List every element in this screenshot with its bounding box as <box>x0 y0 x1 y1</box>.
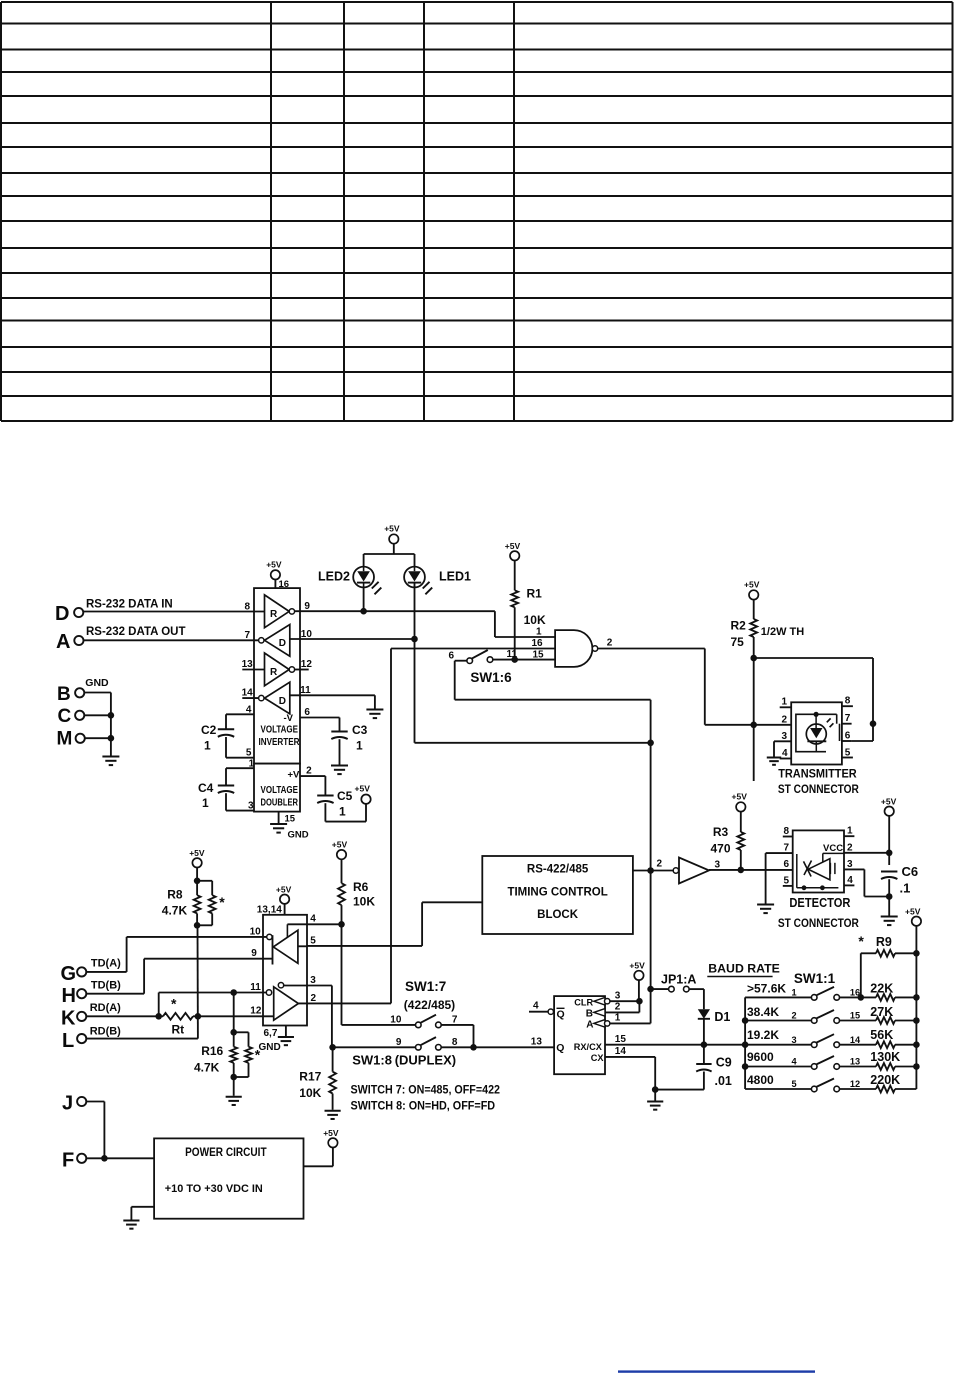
svg-text:Q: Q <box>556 1042 564 1054</box>
svg-text:R: R <box>270 609 278 620</box>
resistor R16 4.7K (parallel pair) <box>194 1032 261 1096</box>
svg-text:R17: R17 <box>299 1070 321 1084</box>
node J <box>62 1093 86 1115</box>
resistor R1 10K <box>511 587 546 628</box>
+V label and VOLTAGE DOUBLER text <box>261 770 301 809</box>
wire R6 to SW1:7 left terminal <box>342 1024 416 1026</box>
wire D to U1 pin 8 <box>83 611 264 613</box>
resistor R8 4.7K (parallel pair) <box>162 881 225 929</box>
capacitor C6 .1 <box>881 864 918 897</box>
ground (U1 pin 15) <box>270 824 309 841</box>
detector pin stubs and numbers <box>766 826 855 887</box>
svg-text:12: 12 <box>850 1079 860 1089</box>
svg-text:3: 3 <box>847 859 853 870</box>
ground (C6) <box>881 916 898 918</box>
wire LED2 cathode to DATA IN line <box>363 587 365 611</box>
svg-text:LED1: LED1 <box>439 570 471 584</box>
U1 pin 3 wire <box>226 801 254 812</box>
svg-text:RS-422/485: RS-422/485 <box>527 864 589 876</box>
node F <box>62 1150 86 1172</box>
svg-text:*: * <box>858 933 864 949</box>
svg-text:+V: +V <box>288 770 301 781</box>
svg-text:470: 470 <box>711 842 731 856</box>
U1 pin 1 wire <box>226 759 255 770</box>
U4 Qbar pin 4 <box>529 1001 565 1021</box>
U1 pin 6 wire (-V) <box>300 707 340 718</box>
svg-text:R3: R3 <box>713 825 729 839</box>
svg-text:C3: C3 <box>352 723 368 737</box>
node B <box>57 684 84 705</box>
svg-text:R9: R9 <box>876 935 892 949</box>
IC U1 voltage doubler section box <box>254 764 300 812</box>
svg-text:2: 2 <box>311 993 317 1004</box>
svg-text:6: 6 <box>784 859 790 870</box>
node H (TD(B) terminal) <box>62 980 122 1008</box>
resistor R6 10K <box>338 880 375 909</box>
svg-text:3: 3 <box>792 1035 797 1045</box>
svg-text:27K: 27K <box>870 1005 893 1019</box>
svg-text:CX: CX <box>591 1053 605 1063</box>
svg-text:11: 11 <box>507 649 518 660</box>
svg-text:RD(B): RD(B) <box>90 1026 121 1038</box>
svg-text:TD(B): TD(B) <box>91 980 121 992</box>
IC U1 box (RS-232 drivers/receivers + voltage inverter) <box>254 588 300 764</box>
TRANSMITTER ST CONNECTOR label <box>778 767 859 797</box>
svg-text:9600: 9600 <box>747 1050 774 1064</box>
svg-text:4800: 4800 <box>747 1073 774 1087</box>
svg-text:F: F <box>62 1150 74 1172</box>
svg-text:G: G <box>61 963 77 985</box>
wire SW1:8 line to one-shot pin 13 <box>329 1037 554 1051</box>
capacitor C2 <box>201 714 234 757</box>
svg-text:12: 12 <box>301 659 313 670</box>
svg-text:C5: C5 <box>337 789 353 803</box>
svg-text:10: 10 <box>301 629 313 640</box>
wire U1 pin 9 output <box>295 601 495 612</box>
svg-text:15: 15 <box>285 814 296 825</box>
receiver R (U1 third, pins 13/12) <box>242 653 313 686</box>
transmitter pin stubs and numbers <box>774 696 853 760</box>
svg-text:DOUBLER: DOUBLER <box>261 798 299 809</box>
svg-text:M: M <box>57 729 73 750</box>
svg-text:SW1:1: SW1:1 <box>794 971 836 986</box>
transmitter ST connector box <box>791 702 842 764</box>
node M <box>57 729 85 750</box>
+5V (R6) <box>332 840 348 884</box>
+5V supply pin 16 of U1 <box>266 560 289 591</box>
svg-text:13: 13 <box>531 1037 543 1048</box>
+5V (U2 pins 13,14) <box>257 885 292 916</box>
svg-text:4: 4 <box>782 748 788 759</box>
svg-text:7: 7 <box>245 630 251 641</box>
ground (detector pin 7) <box>757 904 774 906</box>
svg-text:1/2W TH: 1/2W TH <box>761 626 804 638</box>
svg-text:3: 3 <box>715 860 721 871</box>
wire U2 pin 5 out <box>298 936 316 947</box>
wire U2 pin 9 input <box>144 948 272 959</box>
svg-text:-V: -V <box>284 713 294 724</box>
svg-text:BAUD RATE: BAUD RATE <box>708 962 780 976</box>
svg-text:10K: 10K <box>353 895 375 909</box>
svg-text:GND: GND <box>288 830 309 841</box>
svg-text:4.7K: 4.7K <box>162 904 188 918</box>
svg-text:SW1:6: SW1:6 <box>470 670 512 685</box>
LED1 <box>404 567 471 595</box>
svg-text:D: D <box>55 603 69 625</box>
capacitor C3 <box>331 718 367 765</box>
svg-text:R6: R6 <box>353 880 369 894</box>
wire U1 pin 10 output <box>290 629 415 640</box>
U4 Q / RX/CX / CX labels <box>556 1042 604 1063</box>
svg-text:GND: GND <box>85 677 109 689</box>
receiver R (U1 top, pins 8/9) <box>265 595 295 628</box>
wire pin9 line corner down to NAND pin 1 <box>495 611 555 637</box>
svg-text:DETECTOR: DETECTOR <box>789 895 850 910</box>
wire L / RD(B) line <box>86 1038 198 1040</box>
svg-text:C6: C6 <box>902 864 919 879</box>
svg-text:+5V: +5V <box>505 541 521 551</box>
svg-text:SWITCH 8: ON=HD, OFF=FD: SWITCH 8: ON=HD, OFF=FD <box>351 1100 496 1113</box>
svg-text:8: 8 <box>245 602 251 613</box>
U2 ground pins 6,7 <box>259 1026 286 1054</box>
U1 pin 2 wire (+V) <box>300 766 325 777</box>
DETECTOR ST CONNECTOR label <box>778 895 859 930</box>
U4 CLR input pin 3 to +5V <box>574 991 642 1008</box>
svg-text:R1: R1 <box>527 587 543 601</box>
ground (R16) <box>226 1096 242 1098</box>
detector internal phototransistor <box>797 853 844 890</box>
baud rate row 38.4K with switch SW1:2 and resistor 27K <box>745 1005 920 1024</box>
svg-text:1: 1 <box>339 805 346 819</box>
ground (U1 pin 11) <box>366 709 383 711</box>
svg-text:15: 15 <box>533 650 545 661</box>
wire baud network left rail <box>742 997 749 1089</box>
wire pin 11 branch down to RD(A) <box>158 993 160 1017</box>
wire U2 pin 12 input from RD(A)/Rt <box>198 1006 274 1017</box>
svg-text:*: * <box>219 894 225 910</box>
svg-text:R2: R2 <box>731 619 747 633</box>
wire detector pin 3 to C6 bottom <box>844 869 893 915</box>
svg-text:13: 13 <box>242 659 254 670</box>
svg-text:+5V: +5V <box>384 524 400 534</box>
svg-text:4: 4 <box>847 875 853 886</box>
inverter gate (to detector) <box>673 858 720 884</box>
wire timing block output to inverter input <box>633 859 673 871</box>
svg-text:10: 10 <box>390 1015 402 1026</box>
svg-text:ST CONNECTOR: ST CONNECTOR <box>778 916 859 930</box>
wire B/C/M ground bus <box>84 693 114 756</box>
svg-text:Rt: Rt <box>172 1023 185 1037</box>
svg-text:SWITCH 7: ON=485, OFF=422: SWITCH 7: ON=485, OFF=422 <box>351 1084 501 1097</box>
svg-text:+5V: +5V <box>266 560 282 570</box>
svg-text:1: 1 <box>536 627 542 638</box>
svg-text:D: D <box>279 638 286 649</box>
switch SW1:7 (422/485) <box>390 979 458 1028</box>
wire R6 bottom to SW1:7 <box>341 905 343 1025</box>
svg-text:16: 16 <box>279 579 290 590</box>
svg-text:RD(A): RD(A) <box>90 1002 121 1014</box>
SWITCH 7 / SWITCH 8 notes <box>351 1084 501 1113</box>
svg-text:RS-232 DATA OUT: RS-232 DATA OUT <box>86 626 185 638</box>
svg-text:22K: 22K <box>870 981 893 995</box>
wire A to U1 pin 7 <box>84 639 259 641</box>
ground (power circuit) <box>123 1220 139 1222</box>
resistor R3 470 <box>711 825 745 856</box>
wire power circuit +5V output <box>304 1148 333 1167</box>
svg-text:C2: C2 <box>201 723 217 737</box>
svg-text:R16: R16 <box>201 1044 223 1058</box>
wire LED1/pin10 net down and right to vertical net <box>415 639 651 743</box>
svg-text:11: 11 <box>250 982 261 993</box>
switch SW1:8 (DUPLEX) <box>352 1037 458 1068</box>
svg-text:D: D <box>279 696 286 707</box>
svg-text:SW1:7: SW1:7 <box>405 979 446 994</box>
U4 A input pin 1 from main vertical net <box>586 1013 650 1031</box>
+5V (power output) <box>328 1138 337 1147</box>
svg-text:7: 7 <box>784 843 790 854</box>
jumper JP1:A <box>651 973 704 992</box>
svg-text:1: 1 <box>615 1013 621 1024</box>
capacitor C5 <box>317 776 366 822</box>
svg-text:+10 TO +30 VDC IN: +10 TO +30 VDC IN <box>165 1183 263 1195</box>
svg-text:2: 2 <box>792 1011 797 1021</box>
svg-text:13: 13 <box>850 1057 860 1067</box>
svg-text:9: 9 <box>396 1037 402 1048</box>
svg-text:4: 4 <box>792 1057 798 1067</box>
wire NAND pin 16 input <box>391 638 555 649</box>
svg-text:3: 3 <box>310 975 316 986</box>
driver D (U1 second, pins 7/10) <box>259 625 290 657</box>
resistor R17 10K <box>299 1047 336 1110</box>
wire K / RD(A) line with Rt <box>86 996 177 1020</box>
svg-text:4: 4 <box>310 914 316 925</box>
svg-text:H: H <box>62 985 76 1007</box>
svg-text:R: R <box>270 667 278 678</box>
svg-text:3: 3 <box>248 801 254 812</box>
ground (U4 CX) <box>647 1101 663 1103</box>
svg-text:D1: D1 <box>714 1010 730 1024</box>
BAUD RATE label <box>707 962 780 977</box>
node L (RD(B) terminal) <box>62 1026 121 1053</box>
wire U2 pin 2 output up to NAND pin16 net <box>298 649 391 1005</box>
wire power circuit ground <box>131 1207 154 1220</box>
svg-text:POWER CIRCUIT: POWER CIRCUIT <box>185 1147 267 1159</box>
RS-422/485 TIMING CONTROL BLOCK <box>482 856 633 934</box>
svg-text:J: J <box>62 1093 73 1115</box>
svg-text:14: 14 <box>615 1046 627 1057</box>
svg-text:RX/CX: RX/CX <box>574 1042 603 1052</box>
svg-text:*: * <box>171 996 177 1012</box>
wire U4 pin 15 to baud network <box>605 1034 745 1048</box>
svg-text:8: 8 <box>784 826 790 837</box>
svg-text:2: 2 <box>657 859 663 870</box>
svg-text:+5V: +5V <box>355 784 371 794</box>
svg-text:16: 16 <box>532 638 544 649</box>
wire U2 pin 11 input <box>159 982 267 996</box>
svg-text:19.2K: 19.2K <box>747 1028 779 1042</box>
svg-text:VOLTAGE: VOLTAGE <box>261 725 299 736</box>
capacitor C4 <box>198 768 234 810</box>
wire SW1:7 right terminal down to SW1:8 line <box>441 1025 477 1051</box>
svg-text:2: 2 <box>615 1002 621 1013</box>
svg-text:(422/485): (422/485) <box>404 998 455 1012</box>
one-shot U4 box (RX/CX timer) <box>554 996 605 1074</box>
node A (RS-232 DATA OUT terminal) <box>56 626 185 653</box>
svg-text:1: 1 <box>792 988 797 998</box>
wire U1 pin 11 to ground <box>290 685 375 709</box>
svg-text:+5V: +5V <box>189 848 205 858</box>
svg-text:ST CONNECTOR: ST CONNECTOR <box>778 782 859 796</box>
svg-text:K: K <box>61 1008 76 1030</box>
diode D1 <box>698 989 731 1045</box>
svg-text:5: 5 <box>310 936 316 947</box>
transceiver U2 box (RS-422/485 driver/receiver) <box>263 915 307 1026</box>
svg-text:6: 6 <box>304 707 310 718</box>
svg-text:1: 1 <box>202 796 209 810</box>
svg-text:7: 7 <box>452 1015 458 1026</box>
svg-text:10K: 10K <box>299 1086 321 1100</box>
svg-text:10K: 10K <box>524 613 546 627</box>
resistor Rt <box>163 1013 201 1037</box>
svg-text:220K: 220K <box>870 1073 900 1087</box>
wire LED1 cathode down to pin10 line <box>414 583 416 639</box>
resistor R2 75 1/2W TH <box>731 619 805 650</box>
ground (B/C/M) <box>102 756 119 758</box>
baud rate row 19.2K with switch SW1:3 and resistor 56K <box>745 1028 920 1048</box>
svg-text:RS-232 DATA IN: RS-232 DATA IN <box>86 599 173 611</box>
ground (transmitter pin 3) <box>767 757 781 759</box>
+5V (U4 CLR/B) <box>629 961 645 1002</box>
U1 pin 4 wire <box>226 705 254 716</box>
baud rate row 9600 with switch SW1:4 and resistor 130K <box>745 1050 920 1070</box>
baud rate row 4800 with switch SW1:5 and resistor 220K <box>745 1073 916 1092</box>
svg-text:6: 6 <box>449 651 455 662</box>
svg-text:INVERTER: INVERTER <box>259 737 300 748</box>
ground (U2 pins 6,7) <box>278 1036 294 1038</box>
svg-text:14: 14 <box>242 688 254 699</box>
detector ST connector box <box>793 830 844 892</box>
svg-text:TD(A): TD(A) <box>91 958 121 970</box>
svg-text:2: 2 <box>607 638 613 649</box>
ground (R17) <box>325 1110 341 1112</box>
POWER CIRCUIT block <box>154 1138 303 1218</box>
svg-text:CLR: CLR <box>574 997 593 1007</box>
svg-text:L: L <box>62 1030 74 1052</box>
svg-text:75: 75 <box>731 635 745 649</box>
svg-text:9: 9 <box>251 948 257 959</box>
svg-text:+5V: +5V <box>276 885 292 895</box>
wire U2 pin 4 to R6 <box>287 914 344 928</box>
driver D (U1 fourth, pins 14/11) <box>242 682 290 714</box>
svg-text:(DUPLEX): (DUPLEX) <box>395 1053 456 1068</box>
wire F to power circuit <box>86 1155 154 1162</box>
wire U2 pin 3 (enable) to SW1:8/R17 <box>284 975 332 1047</box>
svg-text:1: 1 <box>204 739 211 753</box>
svg-text:11: 11 <box>300 685 311 696</box>
wire G to pin 10 <box>86 937 126 972</box>
svg-text:56K: 56K <box>870 1028 893 1042</box>
baud rate row >57.6K with switch SW1:1 and resistor 22K <box>745 981 920 1001</box>
svg-text:15: 15 <box>850 1011 860 1021</box>
svg-text:SW1:8: SW1:8 <box>352 1053 392 1068</box>
svg-text:.1: .1 <box>900 881 911 896</box>
svg-text:B: B <box>57 684 71 705</box>
-V label and VOLTAGE INVERTER text <box>259 713 300 748</box>
svg-text:2: 2 <box>782 715 788 726</box>
+5V (R1) <box>505 541 521 590</box>
LED2 <box>318 567 381 595</box>
svg-text:VOLTAGE: VOLTAGE <box>261 785 299 796</box>
wire detector pin 7 to ground <box>765 853 767 903</box>
svg-text:LED2: LED2 <box>318 570 350 584</box>
+5V (C6 / detector VCC) <box>881 797 897 866</box>
svg-text:14: 14 <box>850 1035 861 1045</box>
svg-text:+5V: +5V <box>905 907 921 917</box>
svg-text:TRANSMITTER: TRANSMITTER <box>778 767 857 781</box>
svg-text:13,14: 13,14 <box>257 905 282 916</box>
U4 B input pin 2 <box>586 1001 640 1019</box>
receiver triangle in U2 (pins 10/9 -> 5) <box>267 924 298 964</box>
+5V (R2) <box>744 580 760 620</box>
svg-text:>57.6K: >57.6K <box>747 981 786 995</box>
transmitter internal LED <box>796 712 840 752</box>
svg-text:8: 8 <box>845 696 851 707</box>
svg-text:4.7K: 4.7K <box>194 1061 220 1075</box>
table grid (empty data table) <box>1 2 953 421</box>
svg-text:2: 2 <box>847 842 853 853</box>
svg-text:10: 10 <box>250 927 262 938</box>
NAND gate U3 (pins 1,16,15 -> 2) <box>555 630 598 667</box>
blue underline at page bottom <box>618 1370 815 1372</box>
switch SW1:6 <box>449 650 513 685</box>
node G (TD(A) terminal) <box>61 958 122 986</box>
svg-text:5: 5 <box>792 1079 797 1089</box>
svg-text:3: 3 <box>615 991 621 1002</box>
wire inverter output to detector pin 6 <box>709 850 793 873</box>
svg-text:+5V: +5V <box>732 792 748 802</box>
wire U2 pin 10 input <box>127 927 267 938</box>
U1 pin 5 wire <box>226 748 254 759</box>
ground (C3) <box>331 765 348 767</box>
svg-text:R8: R8 <box>167 888 183 902</box>
svg-text:6: 6 <box>845 731 851 742</box>
svg-text:3: 3 <box>782 731 788 742</box>
wire SW1:6 left terminal down and right to main vertical net <box>455 661 651 700</box>
wire J down to F line <box>86 1102 104 1159</box>
wire LED supply rail <box>364 554 415 567</box>
svg-text:GND: GND <box>259 1042 281 1053</box>
node D (RS-232 DATA IN terminal) <box>55 599 173 626</box>
node C <box>58 706 85 727</box>
svg-text:C9: C9 <box>716 1056 732 1070</box>
svg-text:5: 5 <box>845 748 851 759</box>
svg-text:4: 4 <box>533 1001 539 1012</box>
svg-text:12: 12 <box>250 1006 262 1017</box>
svg-text:4: 4 <box>246 705 252 716</box>
svg-text:9: 9 <box>304 601 310 612</box>
svg-text:A: A <box>56 631 70 653</box>
wire timing block input from transceiver pin 5 <box>307 902 482 946</box>
svg-text:+5V: +5V <box>744 580 760 590</box>
wire U4 pin 14 / CX to ground and C9 <box>605 1046 704 1101</box>
driver triangle in U2 (pins 11/12 -> 2, enable 3) <box>266 983 298 1021</box>
svg-text:BLOCK: BLOCK <box>537 909 579 921</box>
resistor R9 22K top (R9) <box>858 933 919 997</box>
+5V (LEDs) <box>384 524 400 555</box>
wire main vertical net down right side <box>647 700 654 1024</box>
svg-text:B: B <box>586 1009 593 1020</box>
wire detector pin 2 to VCC rail <box>844 850 893 857</box>
